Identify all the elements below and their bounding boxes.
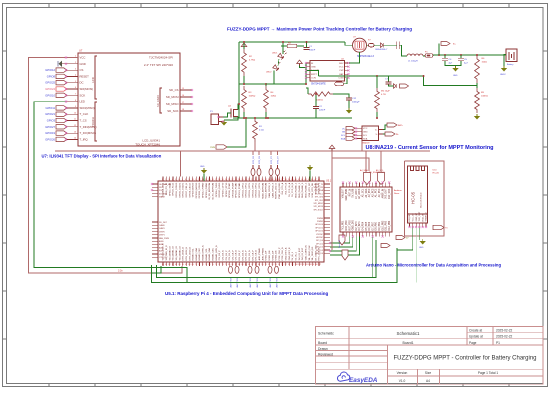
svg-text:RX0_PD0: RX0_PD0 — [346, 220, 348, 231]
svg-text:GPIO24_GPCL: GPIO24_GPCL — [249, 182, 251, 198]
svg-text:GPIO7_CE1_N: GPIO7_CE1_N — [186, 182, 188, 197]
svg-text:GPIO14_TXD0: GPIO14_TXD0 — [216, 182, 218, 197]
LCD group bracket — [95, 56, 97, 99]
svg-text:GPIO3: GPIO3 — [47, 119, 56, 123]
svg-text:GND_RET_B: GND_RET_B — [289, 247, 291, 260]
wire PWM to gate — [227, 118, 246, 147]
svg-text:4: 4 — [172, 179, 173, 181]
svg-text:Page 1 Total 1: Page 1 Total 1 — [478, 371, 499, 375]
svg-text:GPIO15_RXD0: GPIO15_RXD0 — [219, 182, 221, 197]
svg-text:9: 9 — [188, 179, 189, 181]
svg-text:GPIO10: GPIO10 — [45, 93, 55, 97]
svg-text:GPCLK0: GPCLK0 — [315, 224, 324, 226]
svg-text:SCK: SCK — [80, 93, 86, 97]
svg-text:CSI_D1_P: CSI_D1_P — [226, 250, 228, 261]
resistor R7 — [308, 92, 333, 96]
svg-text:SD_DET: SD_DET — [159, 222, 168, 224]
svg-text:VSYNC: VSYNC — [316, 234, 323, 236]
wire rail y76 — [319, 76, 478, 86]
svg-text:PWM1: PWM1 — [317, 221, 324, 223]
HC-05 module U10 — [408, 166, 428, 223]
svg-text:2025-02-22: 2025-02-22 — [496, 335, 513, 339]
svg-text:98: 98 — [288, 264, 290, 266]
svg-text:GPIO12: GPIO12 — [45, 68, 55, 72]
svg-text:43: 43 — [301, 179, 303, 181]
wire mid rail y84 — [239, 83, 306, 85]
svg-text:RUN: RUN — [159, 187, 164, 189]
svg-text:BAT+: BAT+ — [398, 124, 404, 127]
svg-text:CSI_D1_N: CSI_D1_N — [229, 250, 231, 261]
svg-text:GPIO9_MISO0: GPIO9_MISO0 — [193, 182, 195, 197]
svg-text:GPIO21_PCMD: GPIO21_PCMD — [239, 182, 241, 198]
svg-text:18: 18 — [182, 109, 184, 111]
svg-text:85: 85 — [245, 264, 247, 266]
svg-text:GND_RET_A: GND_RET_A — [285, 247, 288, 260]
svg-text:GPIO11: GPIO11 — [45, 106, 55, 110]
svg-text:23: 23 — [235, 179, 237, 181]
capacitor C12 — [333, 94, 349, 98]
svg-text:GND: GND — [453, 75, 458, 77]
svg-text:U8:INA219 - Current Sensor f: U8:INA219 - Current Sensor for MPPT Moni… — [366, 145, 494, 151]
svg-text:3.3v: 3.3v — [118, 270, 123, 273]
svg-text:3: 3 — [75, 68, 76, 70]
svg-text:D4_PD4: D4_PD4 — [363, 221, 365, 230]
fuse F1 stadium — [423, 55, 425, 57]
svg-text:DPI_D0: DPI_D0 — [316, 240, 324, 242]
svg-text:Board1: Board1 — [403, 341, 414, 345]
svg-text:3V3_OUT: 3V3_OUT — [386, 188, 388, 199]
svg-text:65: 65 — [179, 264, 181, 266]
svg-text:CAM_GPIO1_S: CAM_GPIO1_S — [271, 182, 274, 198]
flag A4_SDA down — [364, 173, 371, 185]
stadium R below IC — [335, 82, 344, 86]
RPi right pins — [324, 183, 330, 185]
svg-text:8: 8 — [185, 179, 186, 181]
svg-text:73: 73 — [205, 264, 207, 266]
ground HC-05 — [422, 239, 424, 241]
svg-text:SDA: SDA — [341, 138, 346, 141]
svg-text:ETH_LED2_N: ETH_LED2_N — [186, 246, 188, 260]
TFT SD card pins — [180, 89, 192, 91]
svg-text:AUD_PWM0: AUD_PWM0 — [258, 247, 261, 260]
svg-text:39: 39 — [288, 179, 290, 181]
svg-text:GPIO26: GPIO26 — [45, 137, 55, 141]
svg-text:89: 89 — [258, 264, 260, 266]
flag PWM — [216, 145, 227, 149]
svg-text:HDMI1_SDA: HDMI1_SDA — [208, 248, 211, 261]
svg-text:100Ω: 100Ω — [482, 62, 488, 64]
svg-text:3V3_IO_EXT: 3V3_IO_EXT — [299, 247, 301, 260]
svg-text:A4: A4 — [426, 379, 430, 383]
svg-text:Version: Version — [397, 371, 408, 375]
svg-text:A7_ADC7: A7_ADC7 — [355, 188, 358, 199]
svg-text:Reviewed: Reviewed — [318, 352, 333, 356]
svg-text:36: 36 — [278, 179, 280, 181]
title block — [316, 327, 544, 385]
svg-text:SM72442MTE: SM72442MTE — [311, 83, 326, 85]
svg-text:DPI_D3: DPI_D3 — [316, 250, 324, 252]
svg-text:LED1: LED1 — [272, 53, 278, 55]
svg-text:6: 6 — [75, 87, 76, 89]
LED1 — [278, 53, 284, 59]
svg-text:CAM0: CAM0 — [159, 224, 165, 227]
svg-text:GPIO17_RTS0: GPIO17_RTS0 — [226, 182, 228, 197]
wire PV top rail — [239, 41, 345, 43]
svg-text:TJCTM24024-SPI: TJCTM24024-SPI — [149, 56, 173, 60]
svg-text:I2C_SCL: I2C_SCL — [315, 193, 324, 195]
svg-text:Nano: Nano — [394, 193, 400, 195]
output node rail — [433, 54, 506, 56]
svg-text:GND_PLANE_1: GND_PLANE_1 — [295, 182, 298, 198]
svg-text:97: 97 — [285, 264, 287, 266]
Arduino Nano U9 box — [340, 187, 392, 232]
svg-text:Board: Board — [318, 341, 327, 345]
svg-text:22: 22 — [232, 179, 234, 181]
svg-text:93: 93 — [271, 264, 273, 266]
svg-text:GPIO19: GPIO19 — [45, 131, 55, 135]
svg-text:SPI_MOSI: SPI_MOSI — [314, 206, 324, 208]
svg-text:1000µF: 1000µF — [352, 102, 360, 104]
svg-text:GPIO8_CE0_N: GPIO8_CE0_N — [189, 182, 191, 197]
svg-text:A4_SDA: A4_SDA — [365, 188, 368, 197]
svg-text:SDA: SDA — [363, 137, 368, 140]
svg-text:GN: GN — [342, 132, 346, 134]
svg-text:STATE_O: STATE_O — [425, 212, 428, 222]
svg-text:HDMI1_SCL: HDMI1_SCL — [206, 248, 208, 261]
svg-text:DSI_CK_P: DSI_CK_P — [252, 249, 254, 260]
svg-text:GND_DIG: GND_DIG — [353, 220, 355, 231]
svg-text:Schematic1: Schematic1 — [397, 331, 420, 336]
svg-text:GPIO12_PWM0: GPIO12_PWM0 — [203, 182, 205, 198]
resistor R2 — [242, 49, 247, 76]
pull-up ovals above RPi — [251, 168, 255, 175]
svg-text:DRV: DRV — [339, 63, 344, 65]
svg-text:MPPT: MPPT — [311, 74, 318, 76]
Arduino bottom wires to RPi — [330, 237, 350, 244]
svg-text:17: 17 — [215, 179, 217, 181]
svg-text:PCIE_CLK_N: PCIE_CLK_N — [282, 247, 284, 261]
svg-text:GPIO6_GCLK2: GPIO6_GCLK2 — [183, 182, 185, 198]
svg-text:SPI0_271: SPI0_271 — [271, 156, 273, 164]
svg-text:WL_SDIO_CLK: WL_SDIO_CLK — [309, 245, 311, 261]
svg-text:40: 40 — [291, 179, 293, 181]
PV+ up flag — [243, 47, 245, 49]
svg-text:PG: PG — [159, 190, 162, 192]
RPi top pins — [162, 177, 164, 182]
svg-text:60: 60 — [162, 264, 164, 266]
Arduino wires to loop — [372, 237, 374, 278]
svg-text:VCC: VCC — [80, 56, 86, 60]
svg-text:U7: U7 — [79, 49, 83, 53]
svg-text:5: 5 — [75, 81, 76, 83]
svg-text:72: 72 — [202, 264, 204, 266]
svg-text:GPIO21: GPIO21 — [45, 112, 55, 116]
GPIO net flags — [56, 68, 67, 72]
TFT left pins — [66, 57, 78, 59]
svg-text:CON: CON — [311, 78, 316, 80]
svg-text:GPIO23_GPCL: GPIO23_GPCL — [246, 182, 248, 198]
svg-text:SPI_CE1: SPI_CE1 — [315, 200, 324, 202]
svg-text:D6_PD6: D6_PD6 — [369, 221, 371, 230]
svg-text:VBUS: VBUS — [159, 254, 165, 256]
svg-text:BAT: BAT — [339, 73, 344, 76]
svg-text:D5_PD5: D5_PD5 — [366, 221, 368, 230]
svg-text:CAM1: CAM1 — [159, 227, 165, 230]
Raspberry Pi U5.1 box — [158, 181, 324, 262]
svg-text:CSI_D0_N: CSI_D0_N — [222, 250, 224, 261]
svg-text:RXD_IN: RXD_IN — [422, 213, 424, 221]
diode D1 — [381, 43, 384, 47]
capacitor C2 — [315, 94, 317, 106]
svg-text:M2 10µF: M2 10µF — [381, 91, 390, 93]
svg-text:25: 25 — [242, 179, 244, 181]
svg-text:87: 87 — [252, 264, 254, 266]
svg-text:GPIO10_MOSI0: GPIO10_MOSI0 — [196, 182, 198, 198]
TFT display U7 box — [78, 53, 180, 146]
svg-text:Create at: Create at — [469, 329, 482, 333]
svg-text:29: 29 — [255, 179, 257, 181]
inductor L1 — [407, 54, 423, 56]
svg-text:10: 10 — [192, 179, 194, 181]
svg-text:61: 61 — [165, 264, 167, 266]
op-amp U2 MPPT controller IC — [310, 61, 345, 82]
svg-text:2: 2 — [165, 179, 166, 181]
svg-text:SD_DATA0_IO: SD_DATA0_IO — [168, 246, 171, 261]
svg-text:GND: GND — [311, 67, 316, 69]
svg-text:99: 99 — [291, 264, 293, 266]
svg-text:SD_DATA2_IO: SD_DATA2_IO — [175, 246, 178, 261]
resistor R6 — [475, 55, 480, 83]
svg-text:LED2: LED2 — [266, 72, 272, 74]
svg-text:GPIO26_GPCL: GPIO26_GPCL — [256, 182, 258, 198]
svg-text:DPI_D1: DPI_D1 — [316, 243, 324, 245]
svg-text:USB2_DN: USB2_DN — [269, 250, 271, 260]
svg-text:DSI_D0_P: DSI_D0_P — [239, 250, 241, 261]
svg-text:DSI_D0_N: DSI_D0_N — [242, 250, 244, 261]
VCC arrow mid — [299, 64, 301, 66]
svg-text:L1 100µH: L1 100µH — [408, 61, 418, 63]
svg-text:1: 1 — [162, 179, 163, 181]
svg-text:Bluetooth Module: Bluetooth Module — [420, 191, 423, 207]
svg-text:GPIO5_GCLK1: GPIO5_GCLK1 — [179, 182, 181, 198]
svg-text:GPIO27_GPCL: GPIO27_GPCL — [259, 182, 261, 198]
svg-text:16: 16 — [212, 179, 214, 181]
svg-text:0.1Ω: 0.1Ω — [259, 130, 264, 132]
svg-text:38: 38 — [285, 179, 287, 181]
svg-text:76: 76 — [215, 264, 217, 266]
svg-text:GND: GND — [80, 62, 86, 66]
svg-text:P1: P1 — [496, 341, 500, 345]
svg-text:V1.0: V1.0 — [399, 379, 406, 383]
svg-text:SPI_CE0: SPI_CE0 — [315, 197, 324, 199]
svg-text:77: 77 — [218, 264, 220, 266]
svg-text:1V8_IO_EXT: 1V8_IO_EXT — [302, 247, 304, 260]
svg-text:A3_PC3: A3_PC3 — [368, 188, 371, 197]
transistor Q1 voltage regulator — [353, 38, 367, 52]
svg-text:VIN_EXT: VIN_EXT — [343, 188, 345, 198]
resistor R8 stadium — [287, 44, 297, 48]
svg-text:10KΩ: 10KΩ — [271, 96, 277, 98]
svg-text:27: 27 — [248, 179, 250, 181]
svg-text:4: 4 — [75, 75, 76, 77]
svg-text:5V_IN_2: 5V_IN_2 — [296, 251, 298, 260]
svg-text:83: 83 — [238, 264, 240, 266]
capacitor C1 — [304, 47, 310, 49]
svg-text:USB3_DP: USB3_DP — [272, 250, 274, 260]
resistor R5 — [375, 88, 380, 112]
svg-text:5V_IN_1: 5V_IN_1 — [292, 251, 294, 260]
wire to inductor — [399, 45, 407, 56]
svg-text:COM: COM — [338, 78, 343, 80]
svg-text:31: 31 — [262, 179, 264, 181]
svg-text:41: 41 — [295, 179, 297, 181]
svg-text:2.4" TFT SPI 240*320: 2.4" TFT SPI 240*320 — [144, 63, 173, 67]
svg-text:CS: CS — [80, 68, 84, 72]
svg-text:GPIO27: GPIO27 — [45, 125, 55, 129]
svg-text:96: 96 — [281, 264, 283, 266]
TOUCH group bracket — [95, 102, 97, 141]
svg-text:SDI(MOSI): SDI(MOSI) — [80, 87, 94, 91]
svg-text:4.7Ω: 4.7Ω — [381, 94, 386, 96]
svg-text:VCC_5V: VCC_5V — [413, 213, 415, 222]
svg-text:A4_SDA: A4_SDA — [360, 169, 368, 172]
svg-text:ETH_LED1_N: ETH_LED1_N — [183, 246, 185, 260]
svg-text:CSI_CK_N: CSI_CK_N — [236, 249, 238, 260]
svg-text:4.7KΩ: 4.7KΩ — [249, 60, 255, 62]
svg-text:AUD_PWM1: AUD_PWM1 — [261, 247, 264, 260]
svg-text:DSI_D1_P: DSI_D1_P — [246, 250, 248, 261]
svg-text:RST_PC6: RST_PC6 — [349, 220, 351, 231]
wire rail into Q1 — [345, 42, 353, 45]
svg-text:A5_SCL: A5_SCL — [362, 188, 365, 197]
svg-text:GPIO18_PCMC: GPIO18_PCMC — [229, 182, 231, 198]
svg-text:SD_MISO: SD_MISO — [166, 102, 179, 106]
svg-text:WAKE: WAKE — [159, 196, 165, 199]
transistor Q2 MOSFET — [230, 109, 232, 118]
svg-text:TXD_OUT: TXD_OUT — [419, 211, 421, 221]
svg-text:6: 6 — [179, 179, 180, 181]
Arduino bottom pins — [342, 232, 344, 237]
svg-text:100KΩ: 100KΩ — [249, 96, 256, 98]
svg-text:PCIE_CLK_P: PCIE_CLK_P — [279, 247, 281, 261]
svg-text:Arduino Nano - Microcontroll: Arduino Nano - Microcontroller for Data … — [366, 263, 501, 268]
svg-text:16: 16 — [182, 95, 184, 97]
svg-text:GPCLK1: GPCLK1 — [315, 227, 324, 229]
svg-text:UART_RX: UART_RX — [314, 186, 324, 189]
svg-text:D13_SCK: D13_SCK — [389, 188, 391, 199]
brown loop around HC-05 — [405, 161, 445, 236]
svg-text:7: 7 — [75, 94, 76, 96]
svg-text:D3_INT1: D3_INT1 — [359, 221, 361, 231]
svg-text:70: 70 — [195, 264, 197, 266]
VCC flag INA — [331, 149, 333, 151]
svg-text:GND: GND — [200, 166, 205, 168]
svg-text:20: 20 — [225, 179, 227, 181]
svg-text:USB3_DN: USB3_DN — [276, 250, 278, 260]
svg-text:VDD_CORE_IN: VDD_CORE_IN — [305, 245, 307, 261]
svg-text:A5_SCL: A5_SCL — [376, 169, 384, 172]
svg-text:44: 44 — [305, 179, 307, 181]
capacitor C4 — [444, 55, 446, 58]
svg-text:75: 75 — [212, 264, 214, 266]
svg-text:5: 5 — [175, 179, 176, 181]
svg-text:VCC: VCC — [339, 67, 344, 69]
svg-text:UART_TX: UART_TX — [314, 183, 324, 186]
svg-text:T_DO(MISO): T_DO(MISO) — [80, 131, 97, 135]
green stub RPi bottom — [152, 266, 162, 273]
svg-text:HDMI0_SDA: HDMI0_SDA — [195, 248, 198, 261]
svg-text:T_CS: T_CS — [80, 119, 87, 123]
HC-05 bottom wires — [397, 227, 413, 250]
svg-text:VCC: VCC — [363, 128, 368, 130]
svg-text:100nF: 100nF — [309, 50, 316, 52]
svg-text:LCD: LCD — [91, 77, 95, 83]
svg-text:A0_PC0: A0_PC0 — [378, 188, 381, 197]
svg-text:D11_PB3: D11_PB3 — [386, 220, 388, 230]
svg-text:GPIO13_PWM1: GPIO13_PWM1 — [206, 182, 208, 198]
svg-text:HDMI0_SCL: HDMI0_SCL — [193, 248, 195, 261]
svg-text:81: 81 — [232, 264, 234, 266]
svg-text:9: 9 — [75, 106, 76, 108]
svg-text:USB2_DP: USB2_DP — [266, 250, 268, 260]
ground below C12 — [348, 108, 350, 110]
svg-text:10: 10 — [74, 112, 76, 114]
svg-text:STATUS_LED_G: STATUS_LED_G — [275, 182, 278, 199]
svg-text:PWM0: PWM0 — [317, 218, 324, 220]
svg-text:HDMI0_HPD_N: HDMI0_HPD_N — [203, 245, 205, 261]
Arduino top pins — [342, 183, 344, 188]
svg-text:GND: GND — [363, 132, 368, 134]
EasyEDA logo — [337, 372, 349, 381]
svg-text:T_CLK: T_CLK — [80, 112, 89, 116]
svg-text:Update at: Update at — [469, 335, 483, 339]
svg-text:11: 11 — [195, 179, 197, 181]
svg-text:3V3_SYS_A: 3V3_SYS_A — [281, 182, 284, 194]
svg-text:5V_SYS_IN_A: 5V_SYS_IN_A — [288, 182, 291, 197]
unconnected pin markers — [65, 56, 67, 58]
svg-text:5V_SYS_IN_B: 5V_SYS_IN_B — [292, 182, 294, 197]
svg-text:SD_CS: SD_CS — [169, 88, 178, 92]
svg-text:ETH_LED3_N: ETH_LED3_N — [189, 246, 191, 260]
wire PV left trunk — [238, 42, 240, 118]
wire Q1 bottom to DRV — [349, 52, 360, 63]
svg-text:PWR_LED_RED: PWR_LED_RED — [279, 182, 281, 199]
svg-text:220nF: 220nF — [319, 110, 326, 112]
svg-text:14: 14 — [205, 179, 207, 181]
svg-text:69: 69 — [192, 264, 194, 266]
svg-text:FAN_PWM: FAN_PWM — [159, 237, 169, 240]
svg-text:12: 12 — [198, 179, 200, 181]
svg-text:FUZZY-DDPG MPPT - Controller f: FUZZY-DDPG MPPT - Controller for Battery… — [393, 356, 536, 362]
HC-05 pins — [409, 223, 411, 227]
svg-text:D7_PD7: D7_PD7 — [372, 221, 374, 230]
svg-text:U5.1: U5.1 — [326, 180, 332, 183]
I2C/SPI bus wire — [55, 150, 430, 152]
svg-text:Serial_TX: Serial_TX — [339, 239, 341, 248]
svg-text:45: 45 — [308, 179, 310, 181]
svg-text:V-: V- — [376, 134, 378, 136]
svg-text:SPI0_253: SPI0_253 — [253, 156, 255, 164]
svg-text:GND_PWR: GND_PWR — [346, 188, 348, 200]
connector ovals below RPi — [230, 265, 232, 267]
svg-text:66: 66 — [182, 264, 184, 266]
svg-text:84: 84 — [242, 264, 244, 266]
svg-text:LED: LED — [80, 100, 85, 104]
svg-text:PWM: PWM — [210, 147, 215, 149]
wire bottom rail y118 — [233, 117, 352, 119]
svg-text:RST_N: RST_N — [349, 188, 351, 196]
svg-text:EN_KEY: EN_KEY — [409, 213, 411, 222]
